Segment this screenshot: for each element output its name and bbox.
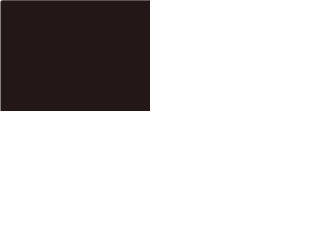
rounded corner pixel (0,2)	[0, 2, 1, 3]
dark card body	[1, 1, 150, 111]
rounded corner pixel (1,0)	[1, 0, 2, 1]
rounded corner pixel (1,1)	[1, 1, 2, 2]
card left edge (antialiased column)	[0, 1, 1, 111]
card top edge (antialiased row)	[1, 0, 150, 1]
rounded corner pixel (0,0)	[0, 0, 1, 1]
rounded corner pixel (0,1)	[0, 1, 1, 2]
rounded corner pixel (2,1)	[2, 1, 3, 2]
rounded corner pixel (2,0)	[2, 0, 3, 1]
rounded corner pixel (1,2)	[1, 2, 2, 3]
